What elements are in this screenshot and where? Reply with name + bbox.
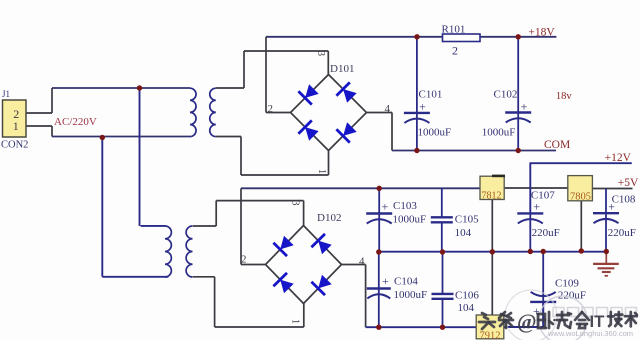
svg-text:1: 1 [316,169,327,174]
svg-text:C105: C105 [455,214,479,226]
svg-text:18v: 18v [556,91,573,102]
svg-text:+: + [533,199,540,213]
svg-text:CON2: CON2 [1,140,28,151]
svg-text:+18V: +18V [528,26,555,38]
svg-text:+: + [521,100,528,114]
svg-text:+: + [419,100,426,114]
svg-text:220uF: 220uF [608,227,636,239]
svg-text:1: 1 [290,319,301,324]
svg-text:2: 2 [268,103,274,115]
svg-text:+12V: +12V [605,152,632,164]
svg-text:J1: J1 [2,89,10,99]
svg-text:+: + [382,274,389,288]
svg-text:1000uF: 1000uF [393,213,427,225]
svg-text:R101: R101 [442,23,466,35]
svg-text:4: 4 [385,103,391,115]
svg-text:IT: IT [590,313,605,331]
svg-text:@: @ [517,310,537,334]
svg-text:+5V: +5V [618,177,639,189]
svg-text:2: 2 [241,254,247,266]
svg-text:4: 4 [359,256,365,268]
svg-text:C108: C108 [612,194,636,206]
svg-text:7805: 7805 [570,192,591,203]
svg-text:C103: C103 [393,200,417,212]
svg-text:3: 3 [315,51,326,56]
svg-text:1000uF: 1000uF [418,126,452,138]
svg-text:+: + [608,200,615,214]
svg-text:3: 3 [290,201,301,206]
svg-text:7912: 7912 [480,331,501,340]
svg-text:C104: C104 [394,276,418,288]
svg-text:1: 1 [13,119,19,133]
svg-text:AC/220V: AC/220V [54,116,97,128]
svg-text:COM: COM [544,139,570,151]
svg-text:2: 2 [452,44,458,58]
svg-text:C102: C102 [494,89,518,101]
svg-text:+: + [382,199,389,213]
svg-text:7812: 7812 [482,191,502,202]
svg-text:104: 104 [455,227,472,239]
svg-text:1000uF: 1000uF [394,289,428,301]
svg-text:1000uF: 1000uF [482,126,516,138]
svg-text:D102: D102 [317,212,341,224]
svg-text:C106: C106 [455,290,479,302]
svg-text:104: 104 [458,302,475,314]
svg-text:D101: D101 [330,63,354,75]
svg-text:220uF: 220uF [532,227,560,239]
svg-text:C109: C109 [555,278,579,290]
